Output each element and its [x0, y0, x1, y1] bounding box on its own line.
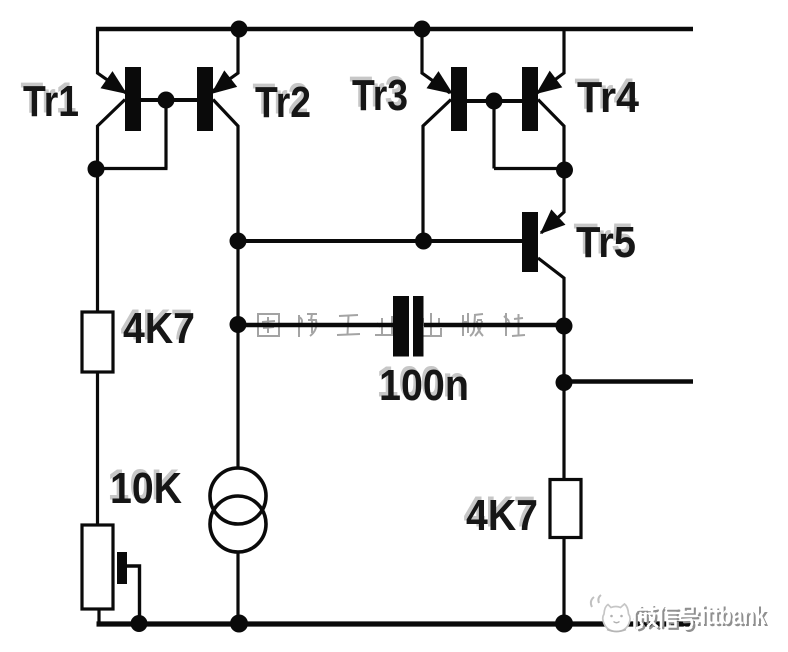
- transistor Tr1 base bar: [125, 67, 141, 131]
- node capacitor right net junction: [556, 318, 573, 335]
- wire top supply rail: [96, 27, 693, 32]
- node top rail junction above Tr3: [414, 21, 431, 38]
- watermark wechat icon sparkle: [591, 595, 601, 607]
- resistor R2 10K potentiometer body: [82, 525, 113, 609]
- wire Tr4 collector diagonal: [538, 100, 564, 171]
- transistor Tr4 base bar: [522, 67, 538, 131]
- wire capacitor left lead: [238, 323, 394, 328]
- watermark 号 (embossed white over gray shadow): [682, 609, 698, 631]
- node Tr4 collector junction: [556, 162, 573, 179]
- watermark wechat icon kitten face: [603, 604, 630, 632]
- svg-text:Tr2: Tr2: [255, 78, 311, 127]
- transistor Tr5 emitter arrow: [540, 209, 566, 234]
- wire base-to-collector tie of Tr4 (horizontal): [494, 167, 564, 170]
- wire output line to the right: [564, 379, 693, 384]
- watermark 社: [503, 313, 525, 336]
- watermark 出: [421, 313, 441, 337]
- node base junction Tr3/Tr4: [486, 93, 503, 110]
- wire capacitor right lead: [424, 323, 564, 328]
- capacitor C1 right plate: [413, 296, 424, 357]
- watermark 微 (embossed white over gray shadow): [634, 607, 659, 630]
- wire current source bottom lead: [236, 552, 239, 624]
- wire current source top lead: [236, 325, 239, 469]
- transistor Tr3 emitter arrow: [427, 71, 454, 94]
- svg-text:Tr5: Tr5: [576, 218, 636, 267]
- node capacitor left net junction: [230, 316, 247, 333]
- wire Tr3-Tr4 base link: [467, 99, 522, 103]
- watermark 业: [375, 316, 399, 335]
- transistor Tr4 emitter arrow: [536, 71, 562, 94]
- node base junction Tr1/Tr2: [158, 92, 175, 109]
- wire base-to-collector tie of Tr4 (vertical): [492, 101, 495, 169]
- node top rail junction above Tr2: [231, 21, 248, 38]
- resistor R1 4K7 left body: [82, 312, 113, 372]
- wire R2 bottom lead to rail: [97, 609, 100, 624]
- wire output node vertical: [562, 326, 565, 480]
- svg-text:4K7: 4K7: [123, 304, 195, 353]
- potentiometer R2 wiper bar: [117, 552, 127, 584]
- watermark 信 (embossed white over gray shadow): [661, 608, 679, 629]
- svg-text:100n: 100n: [379, 361, 469, 410]
- wire Tr5 base line to Tr2/Tr3 collectors: [238, 239, 522, 243]
- wire Tr2 emitter from rail: [210, 27, 238, 93]
- svg-text:10K: 10K: [110, 464, 182, 513]
- svg-text:Tr4: Tr4: [577, 73, 639, 122]
- wire Tr5 emitter from Tr4 collector node: [541, 170, 564, 233]
- watermark 防: [299, 314, 317, 337]
- wire base-to-collector tie of Tr1 (horizontal): [96, 167, 168, 170]
- wire Tr2 collector down to capacitor node: [236, 241, 239, 325]
- svg-text:Tr3: Tr3: [352, 71, 408, 120]
- node Tr1 collector junction: [88, 161, 105, 178]
- svg-text:Tr1: Tr1: [23, 77, 79, 126]
- transistor Tr2 emitter arrow: [211, 70, 237, 94]
- wire left vertical from rail to Tr1 emitter: [98, 27, 127, 93]
- wire wiper to bottom rail: [127, 566, 140, 624]
- svg-text:4K7: 4K7: [466, 491, 538, 540]
- wire Tr1 collector diagonal: [98, 100, 126, 171]
- wire base-to-collector tie of Tr1 (vertical): [164, 100, 167, 169]
- watermark 版: [463, 313, 483, 336]
- node bottom rail junction at wiper: [131, 615, 148, 632]
- node bottom rail junction at current source: [230, 615, 248, 633]
- wire Tr4 emitter from rail: [537, 27, 564, 93]
- wire Tr5 collector diagonal: [538, 258, 564, 326]
- wire between R1 and R2: [96, 372, 99, 525]
- wire left branch down from Tr1 collector node: [96, 169, 99, 312]
- watermark 国: [258, 314, 279, 336]
- wire Tr3 collector diagonal: [423, 100, 451, 242]
- resistor R3 4K7 right body: [550, 480, 581, 538]
- node Tr3 collector / Tr5 base junction: [415, 233, 432, 250]
- wire Tr3 emitter from rail: [422, 27, 450, 93]
- transistor Tr3 base bar: [451, 67, 467, 131]
- capacitor C1 left plate: [393, 296, 409, 357]
- node output junction: [556, 374, 573, 391]
- transistor Tr1 emitter arrow: [101, 71, 128, 94]
- wire bottom ground rail: [97, 621, 696, 626]
- node Tr2 collector / Tr5 base junction: [230, 233, 247, 250]
- transistor Tr2 base bar: [197, 67, 213, 131]
- transistor Tr5 base bar: [522, 212, 538, 272]
- current source I1 lower circle: [210, 496, 266, 552]
- wire Tr1-Tr2 base link: [141, 98, 197, 102]
- wire R3 bottom lead: [562, 538, 565, 625]
- watermark 工: [337, 315, 360, 335]
- svg-text::ittbank: :ittbank: [694, 600, 767, 630]
- wire Tr2 collector diagonal: [213, 100, 238, 242]
- current source I1 upper circle: [210, 468, 266, 524]
- node bottom rail junction at R3: [555, 615, 573, 633]
